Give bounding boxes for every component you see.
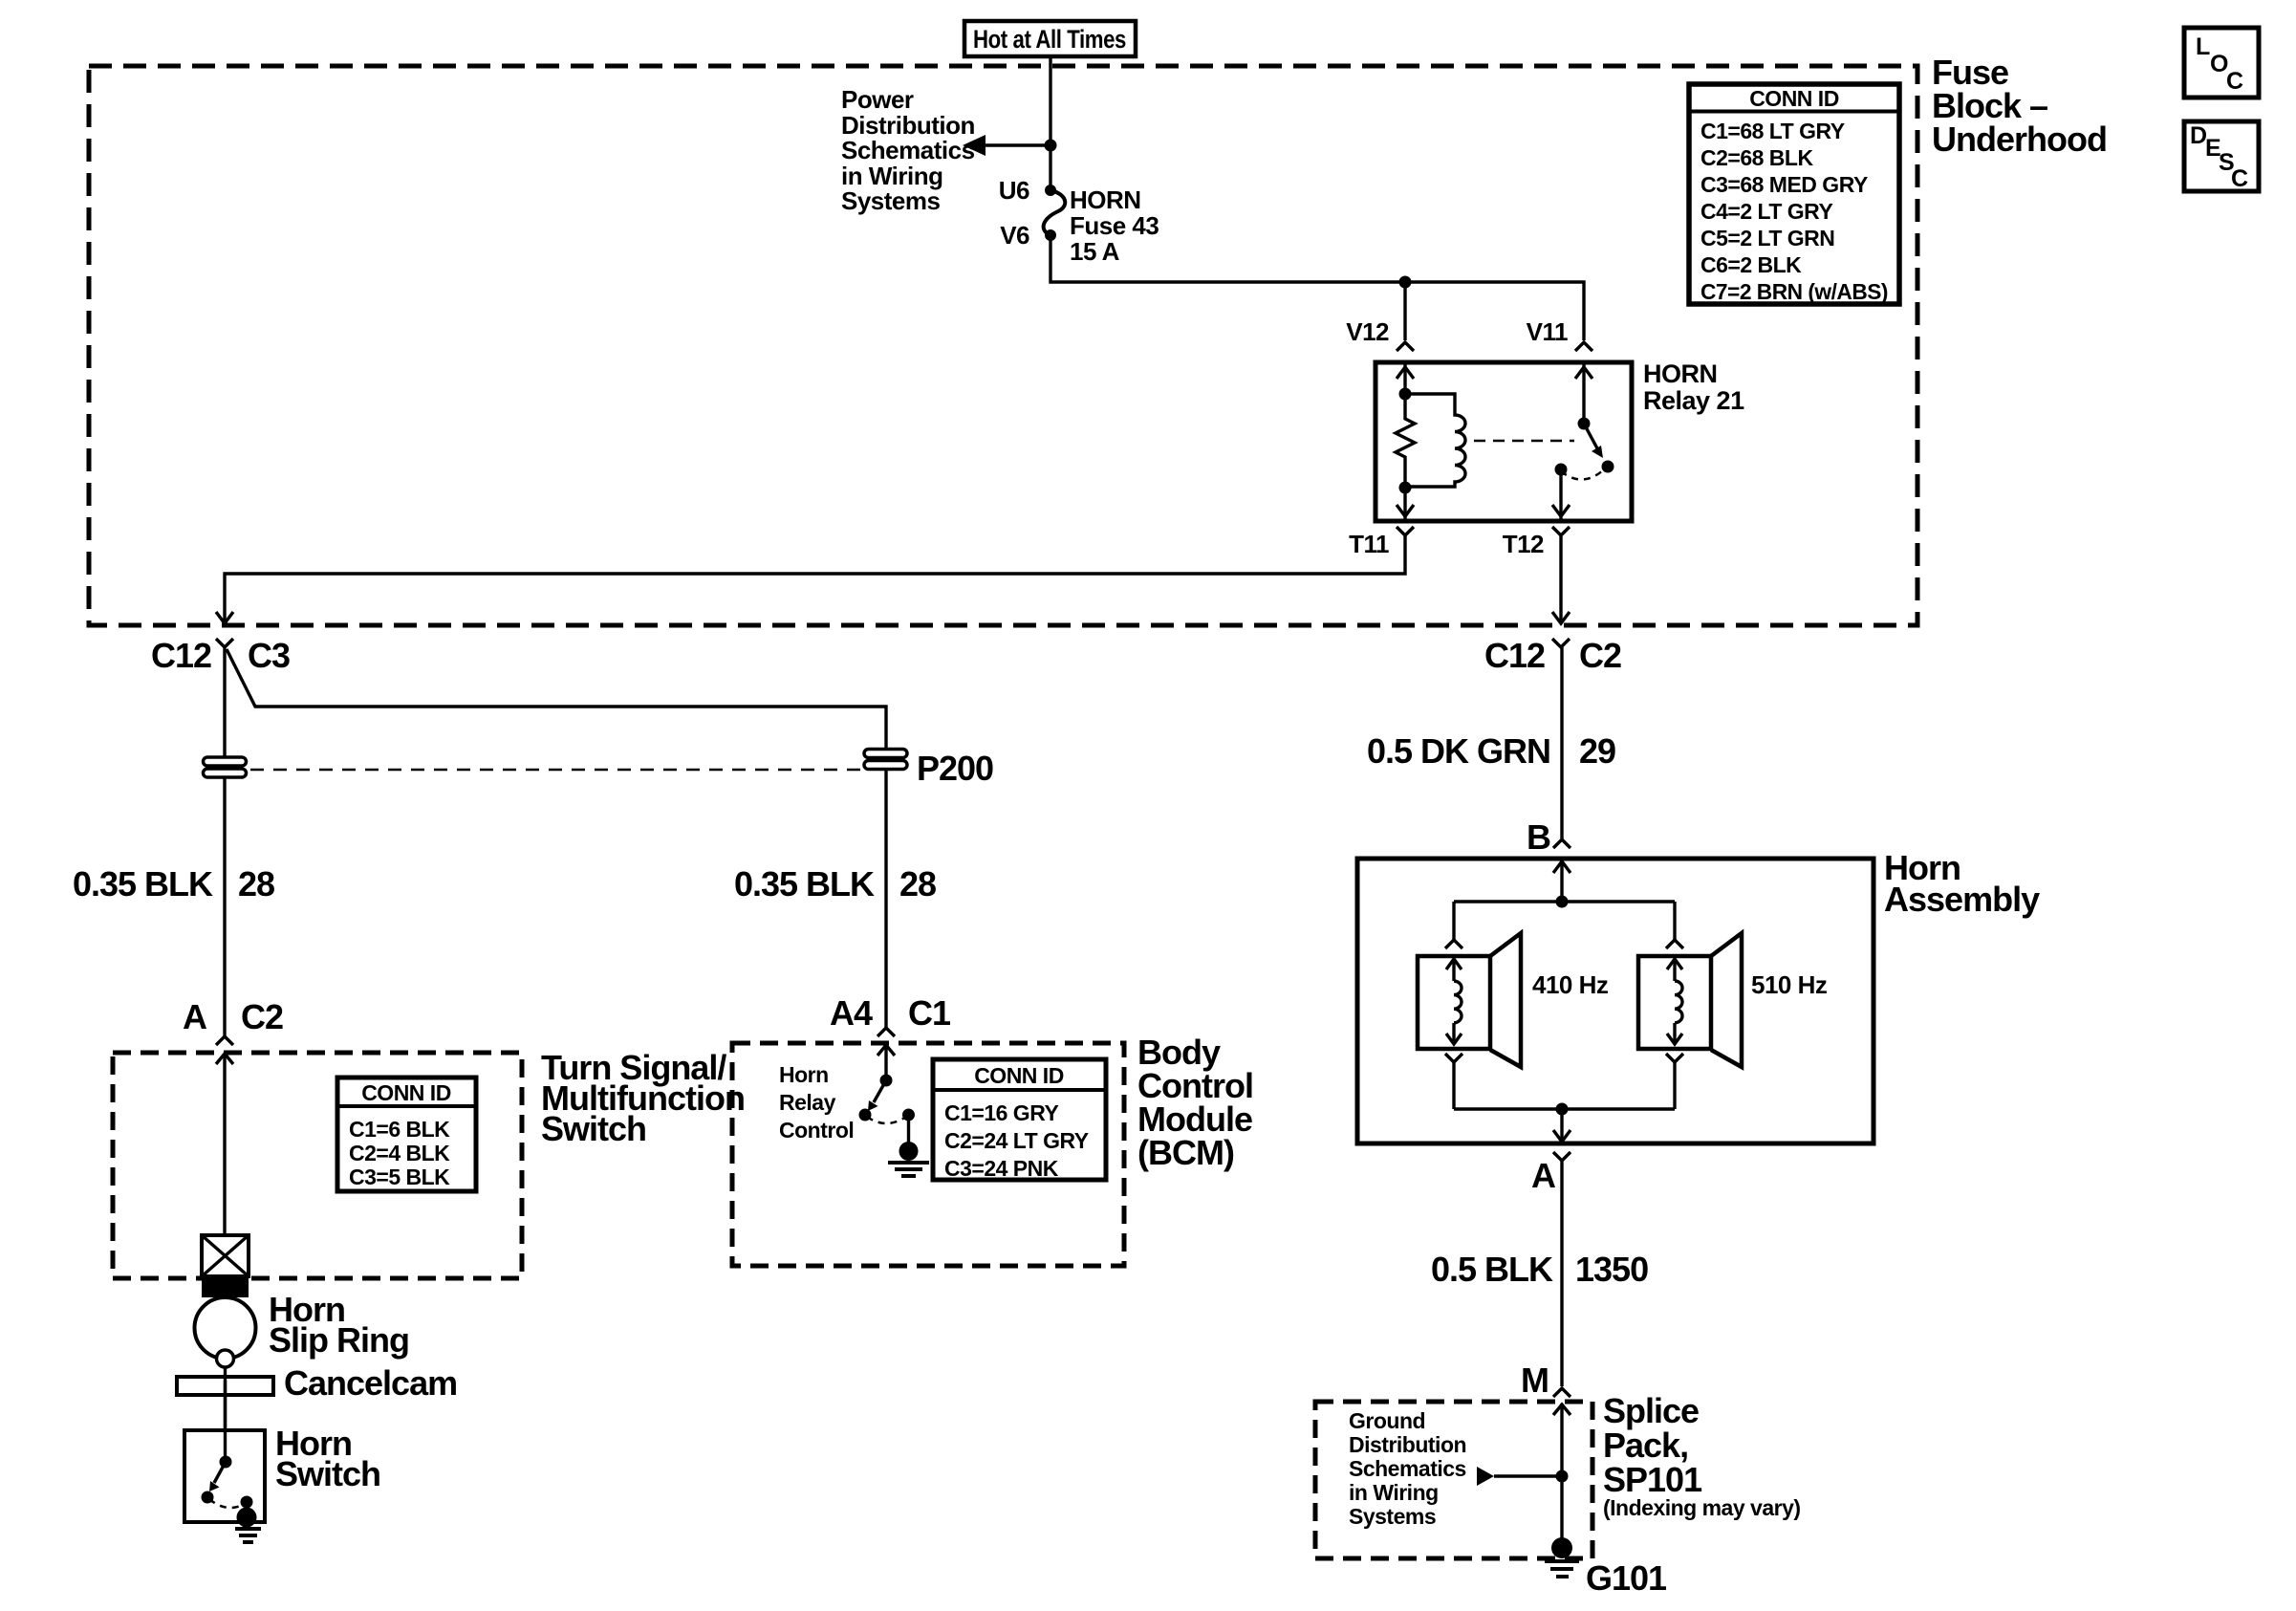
power label box "Hot at All Times" [964,21,1136,56]
svg-text:(BCM): (BCM) [1137,1133,1234,1172]
svg-text:Splice: Splice [1603,1391,1699,1430]
wire label: 0.35 BLK 28 (left) [73,864,274,903]
svg-text:Fuse 43: Fuse 43 [1070,211,1159,240]
wire: out of horn assembly with down arrow [1560,1109,1563,1142]
svg-text:L: L [2196,33,2210,60]
svg-text:410 Hz: 410 Hz [1532,970,1609,999]
svg-text:C1=16 GRY: C1=16 GRY [944,1100,1058,1125]
svg-text:V6: V6 [1000,221,1029,250]
svg-text:C2: C2 [241,997,283,1036]
svg-text:B: B [1527,817,1550,857]
connector chevron A/C2 [216,1036,233,1045]
svg-text:V12: V12 [1346,317,1389,346]
svg-text:CONN ID: CONN ID [974,1063,1064,1088]
svg-text:T11: T11 [1349,530,1389,558]
label: Horn Slip Ring [269,1290,409,1360]
svg-text:C5=2 LT GRN: C5=2 LT GRN [1700,226,1834,250]
wire: left branch C3 down to P200 [223,647,226,1036]
pass-through grommet P200 (left, steering column) [204,757,247,777]
CONN ID table (BCM) [933,1059,1106,1181]
wire: slip ring to horn switch [224,1367,227,1430]
relay switch throw contact [1602,461,1614,473]
label: Horn Assembly [1884,848,2040,919]
lead to ground [245,1502,248,1511]
horn switch ground contact [241,1496,253,1509]
connector chevron below T12 [1552,527,1570,535]
chevron below right horn [1666,1054,1683,1062]
chevron below left horn [1445,1054,1462,1062]
wire: branch to Power Distribution (left arrow) [984,143,1051,146]
svg-text:CONN ID: CONN ID [361,1080,451,1105]
horn 410 Hz (body) [1418,956,1490,1049]
svg-text:28: 28 [899,864,936,903]
svg-text:SP101: SP101 [1603,1460,1702,1499]
svg-text:CONN ID: CONN ID [1749,86,1839,111]
svg-text:28: 28 [238,864,274,903]
svg-text:Schematics: Schematics [841,136,975,164]
svg-text:C: C [2226,68,2243,95]
horn switch input lead [224,1430,227,1462]
ground (BCM internal) [888,1142,929,1176]
label: HORN Fuse 43 15 A [1070,185,1159,266]
junction: splice node [1556,1470,1569,1483]
svg-text:Pack,: Pack, [1603,1426,1688,1465]
horn slip ring coupling (X box) [202,1235,249,1276]
Horn Assembly box [1357,859,1874,1143]
junction: horn feed split [1556,896,1569,908]
relay switch common node [1578,418,1591,430]
svg-text:Relay: Relay [779,1090,836,1115]
relay pin T11 internal lead with down arrow [1403,488,1406,519]
svg-text:Ground: Ground [1349,1408,1425,1433]
svg-text:V11: V11 [1527,317,1568,346]
svg-text:A: A [1531,1156,1556,1195]
svg-text:Distribution: Distribution [1349,1432,1466,1457]
svg-text:C2=4 BLK: C2=4 BLK [349,1141,450,1165]
node: relay coil bottom [1399,482,1412,494]
LOC reference box [2184,28,2259,98]
horn switch S (box) [184,1430,265,1522]
wire: bottom rail joining horn returns [1454,1107,1675,1110]
BCM switch ground contact [902,1109,915,1121]
svg-text:C3: C3 [248,636,290,675]
arrowhead down at fuse block boundary (right) [1552,612,1570,623]
connector chevron at V11 [1575,342,1592,351]
svg-text:Hot at All Times: Hot at All Times [973,25,1126,54]
dashed travel arc of switch [1561,469,1604,480]
slip ring contact (small circle) [217,1350,234,1367]
horn 410 Hz speaker flare [1490,933,1521,1067]
svg-text:0.5 DK GRN: 0.5 DK GRN [1367,731,1550,771]
connector chevron A4/C1 [877,1028,895,1036]
wire: right horn return [1673,1062,1676,1109]
Turn Signal / Multifunction Switch dashed enclosure [113,1053,522,1278]
svg-text:Power: Power [841,85,914,114]
wire: into splice pack with up arrow [1560,1404,1563,1540]
svg-text:C2: C2 [1579,636,1621,675]
arrowhead: to power distribution schematics [963,135,986,156]
svg-text:Horn: Horn [779,1062,829,1087]
svg-text:C: C [2231,165,2248,192]
wire: battery feed from Hot at All Times down to fuse [1049,56,1051,190]
svg-text:1350: 1350 [1575,1250,1648,1289]
wire: T11 to left branch (horn switch feed) [225,535,1405,623]
wire: into BCM with up arrow [884,1045,887,1080]
relay pin V12 internal lead with up arrow [1403,364,1406,394]
pass-through grommet P200 (right) [864,750,907,770]
splice flag (ground distribution reference) [1477,1467,1494,1486]
BCM switch blade with arrowhead [874,1080,886,1102]
svg-text:0.35 BLK: 0.35 BLK [734,864,875,903]
BCM switch throw contact (left) [859,1109,872,1121]
connector chevron B [1553,839,1570,848]
svg-text:Underhood: Underhood [1932,120,2107,159]
relay pin T12 internal lead with down arrow [1559,469,1562,519]
relay K HORN Relay 21 (box) [1375,362,1632,521]
CONN ID table (Fuse Block - Underhood) [1689,84,1899,304]
wire: left horn feed [1452,902,1455,940]
svg-text:G101: G101 [1586,1558,1667,1598]
svg-text:C7=2 BRN (w/ABS): C7=2 BRN (w/ABS) [1700,279,1888,304]
label: Horn Switch [275,1424,380,1493]
horn 510 Hz (body) [1638,956,1711,1049]
BCM horn relay control switch common node [880,1075,893,1087]
coil L (relay winding) [1405,394,1465,487]
pin V6 [1045,229,1056,241]
svg-text:C3=24 PNK: C3=24 PNK [944,1156,1059,1181]
dashed actuation link coil to switch [1474,440,1574,443]
pin U6 [1045,185,1056,196]
svg-text:Systems: Systems [1349,1504,1436,1529]
chevron into right horn [1666,940,1683,948]
svg-text:C3=68 MED GRY: C3=68 MED GRY [1700,172,1868,197]
connector C12/C3 chevron (left) [216,639,233,647]
horn 510 Hz coil with arrows [1667,959,1682,1044]
wire: top rail to both horns [1454,900,1675,903]
svg-text:A4: A4 [830,993,873,1033]
node: relay coil top [1399,388,1412,401]
wire: T12 to horn assembly [1559,535,1562,623]
wire: into horn assembly with up arrow [1560,860,1563,902]
wire label: 0.35 BLK 28 (middle) [734,864,936,903]
resistor (relay internal, parallel with coil) [1396,394,1415,488]
wire: C3 diagonal branch to BCM [227,649,886,750]
svg-text:C12: C12 [1484,636,1545,675]
svg-text:A: A [183,997,207,1036]
svg-text:Slip Ring: Slip Ring [269,1320,409,1360]
svg-text:Relay 21: Relay 21 [1643,386,1744,415]
svg-text:C1: C1 [908,993,951,1033]
dashed link between P200 grommets [250,769,860,772]
junction: node above V12 [1399,276,1412,289]
svg-text:C1=6 BLK: C1=6 BLK [349,1117,450,1142]
wire: drop to V12 [1403,282,1406,340]
horn slip ring (circle) [195,1297,256,1359]
junction: horn return node [1556,1103,1569,1116]
dashed travel arc of horn switch [209,1499,245,1508]
svg-text:0.5 BLK: 0.5 BLK [1431,1250,1553,1289]
wire: fuse output to relay pins V12/V11 [1051,235,1584,340]
chevron into left horn [1445,940,1462,948]
ground (horn switch) [235,1508,261,1543]
connector chevron at V12 [1397,342,1414,351]
svg-text:15 A: 15 A [1070,237,1120,266]
label: HORN Relay 21 [1643,359,1744,415]
relay pin V11 internal lead with up arrow [1582,364,1585,424]
svg-text:C4=2 LT GRY: C4=2 LT GRY [1700,199,1832,224]
relay switch blade with arrowhead [1584,424,1597,448]
connector chevron M [1553,1388,1570,1397]
Fuse Block - Underhood dashed enclosure [89,66,1917,625]
svg-text:0.35 BLK: 0.35 BLK [73,864,213,903]
horn 410 Hz coil with arrows [1446,959,1462,1044]
horn 510 Hz speaker flare [1711,933,1742,1067]
svg-text:P200: P200 [917,749,993,788]
Splice Pack dashed enclosure (ground distribution) [1315,1402,1592,1558]
svg-text:29: 29 [1579,731,1615,771]
wire through cancelcam [224,1381,227,1430]
svg-text:510 Hz: 510 Hz [1751,970,1828,999]
horn slip ring brush (filled block) [202,1276,249,1297]
Fuse Block - Underhood label [1932,53,2107,159]
svg-text:Switch: Switch [541,1109,646,1148]
svg-text:Cancelcam: Cancelcam [284,1363,457,1403]
svg-text:C2=68 BLK: C2=68 BLK [1700,145,1813,170]
label: Turn Signal/Multifunction Switch [541,1048,745,1148]
ground G101 [1545,1537,1579,1577]
svg-text:HORN: HORN [1643,359,1718,388]
wire: C2 down to horn assembly [1560,647,1563,839]
cancelcam bar [177,1377,273,1395]
svg-text:(Indexing may vary): (Indexing may vary) [1603,1495,1801,1520]
wire: horn assembly to splice pack [1560,1161,1563,1386]
junction: feed/branch node [1045,140,1057,152]
wire: left horn return [1452,1062,1455,1109]
svg-text:C1=68 LT GRY: C1=68 LT GRY [1700,119,1845,143]
label: Horn Relay Control [779,1062,854,1143]
svg-text:Switch: Switch [275,1454,380,1493]
svg-text:C6=2 BLK: C6=2 BLK [1700,252,1802,277]
svg-text:in Wiring: in Wiring [1349,1480,1439,1505]
lead to ground [907,1115,910,1143]
fuse F43 HORN Fuse 43 15 A (S-curve element) [1044,190,1066,235]
svg-text:Assembly: Assembly [1884,880,2040,919]
svg-text:U6: U6 [999,176,1029,205]
svg-text:C2=24 LT GRY: C2=24 LT GRY [944,1128,1089,1153]
connector chevron below T11 [1397,527,1414,535]
wire: P200 to BCM [884,770,887,1028]
CONN ID table (Turn Signal/Multifunction Switch) [337,1078,476,1191]
svg-text:C12: C12 [151,636,211,675]
dashed travel arc of BCM switch [867,1117,906,1123]
svg-text:HORN: HORN [1070,185,1141,214]
wire: into turn signal switch with up arrow [223,1054,226,1235]
horn switch throw contact (left) [202,1491,214,1504]
label: Splice Pack SP101 [1603,1391,1801,1520]
label: Power Distribution Schematics in Wiring Systems [841,85,975,215]
svg-text:Control: Control [779,1118,854,1143]
svg-text:Schematics: Schematics [1349,1456,1466,1481]
svg-text:C3=5 BLK: C3=5 BLK [349,1165,450,1189]
label: Body Control Module (BCM) [1137,1033,1253,1172]
connector C12/C2 chevron (right) [1552,639,1570,647]
svg-text:M: M [1521,1361,1549,1400]
connector chevron A [1553,1152,1570,1161]
wire: right horn feed [1673,902,1676,940]
svg-text:T12: T12 [1503,530,1544,558]
svg-text:Systems: Systems [841,186,940,215]
svg-text:D: D [2190,122,2207,149]
wire label: 0.5 DK GRN 29 [1367,731,1615,771]
wire label: 0.5 BLK 1350 [1431,1250,1648,1289]
horn switch blade with arrowhead [214,1462,226,1483]
horn switch common node [220,1456,232,1469]
label: Ground Distribution Schematics in Wiring Systems [1349,1408,1466,1529]
DESC reference box [2184,121,2259,192]
Body Control Module dashed enclosure [732,1043,1124,1266]
relay pin T12 node [1555,464,1568,476]
arrowhead down at fuse block boundary (left) [216,612,233,623]
